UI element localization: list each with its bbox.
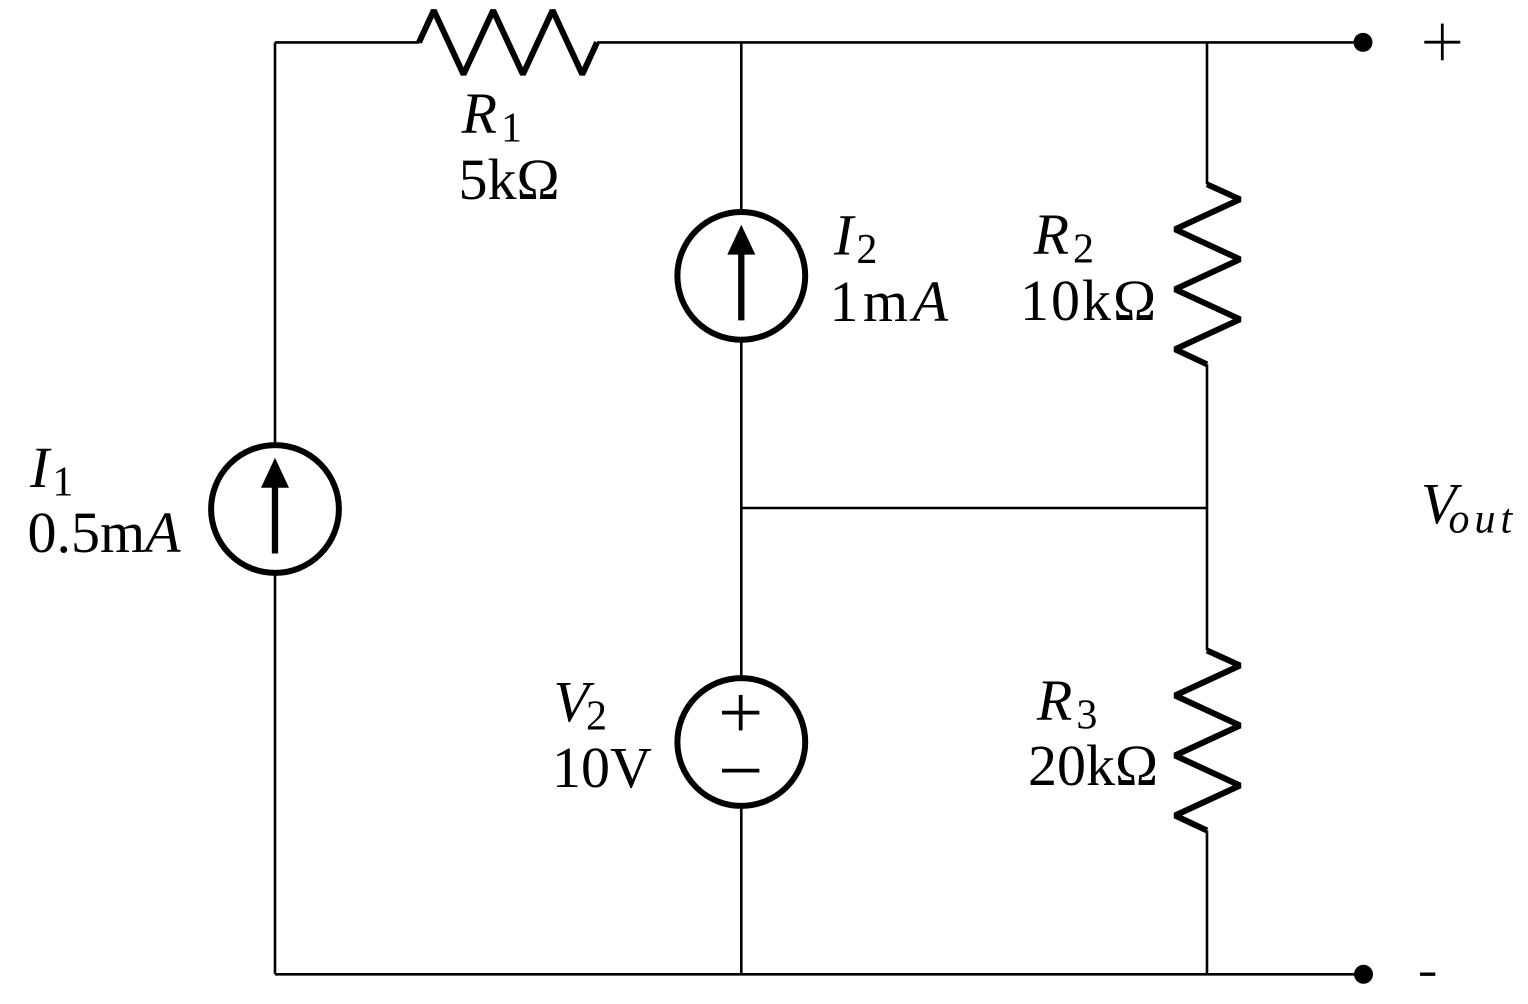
wire middle vertical center <box>740 342 743 676</box>
wire left vertical lower <box>274 576 277 975</box>
label Vout <box>1421 471 1517 543</box>
current source I2 <box>677 212 805 340</box>
label - (bottom right terminal) <box>1420 973 1435 976</box>
resistor R2 <box>1175 184 1240 364</box>
svg-text:1mA: 1mA <box>830 269 953 334</box>
wire top-right horizontal <box>597 41 1363 44</box>
wire middle vertical top <box>740 42 743 209</box>
label R1 5kOhm <box>459 81 560 212</box>
svg-text:0.5mA: 0.5mA <box>28 500 182 565</box>
wire right vertical middle <box>1206 364 1209 650</box>
node - terminal dot (bottom right) <box>1354 965 1373 984</box>
label I1 0.5mA <box>28 435 182 565</box>
resistor R3 <box>1175 651 1240 831</box>
wire right vertical bottom <box>1206 831 1209 975</box>
svg-text:5kΩ: 5kΩ <box>459 147 560 212</box>
voltage source V2 <box>677 678 805 806</box>
wire left vertical upper <box>274 42 277 442</box>
node + terminal dot (top right) <box>1354 33 1373 52</box>
resistor R1 <box>419 10 597 74</box>
wire right vertical top <box>1206 42 1209 184</box>
wire middle vertical bottom <box>740 807 743 974</box>
label V2 10V <box>552 669 652 800</box>
wire top-left horizontal <box>275 41 420 44</box>
svg-text:10V: 10V <box>552 735 652 800</box>
label R2 10kOhm <box>1020 202 1158 333</box>
label R3 20kOhm <box>1028 668 1158 798</box>
svg-text:20kΩ: 20kΩ <box>1028 733 1158 798</box>
label I2 1mA <box>830 203 953 335</box>
wire middle horizontal <box>741 507 1207 510</box>
svg-text:10kΩ: 10kΩ <box>1020 268 1158 333</box>
label + (top right terminal) <box>1424 24 1460 61</box>
wire bottom horizontal <box>275 973 1364 976</box>
current source I1 <box>211 445 339 573</box>
